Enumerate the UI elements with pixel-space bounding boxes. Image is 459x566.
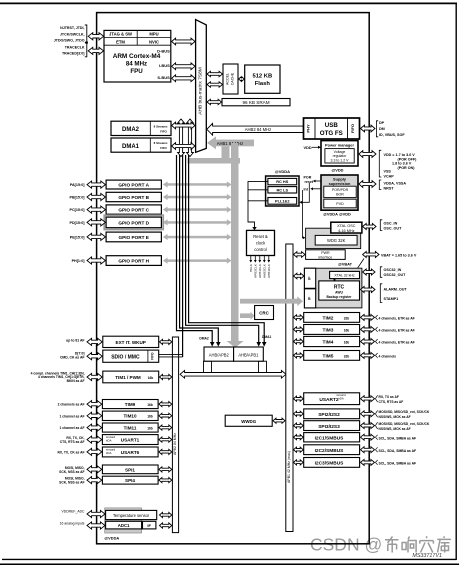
wire APB1 to SPI3/I2S3 arrow bbox=[294, 423, 304, 428]
svg-text:AHB bus-matrix 7S8M: AHB bus-matrix 7S8M bbox=[197, 67, 203, 114]
svg-text:POR: POR bbox=[304, 176, 312, 180]
svg-text:APB2CLK: APB2CLK bbox=[254, 263, 258, 278]
block AHB/APB2 bridge bbox=[204, 347, 234, 361]
svg-text:TIM3: TIM3 bbox=[323, 327, 334, 333]
wire TIM1 pins arrow bbox=[87, 373, 102, 380]
svg-text:USART2: USART2 bbox=[319, 397, 339, 403]
svg-text:APB1 42 MHz (max): APB1 42 MHz (max) bbox=[287, 451, 291, 483]
svg-text:ALARM_OUT: ALARM_OUT bbox=[384, 287, 408, 291]
wire APB2 bus bar bbox=[172, 337, 178, 533]
block watchdog gray box bbox=[306, 228, 361, 248]
block XTAL 32 kHz bbox=[330, 271, 360, 278]
wire gray branch to RTC bbox=[240, 299, 298, 304]
wire APB1 to TIM3 arrow bbox=[294, 327, 304, 332]
block XTAL OSC 4-16 MHz bbox=[331, 222, 362, 233]
wire USART6 pins arrow bbox=[87, 448, 102, 455]
svg-text:control: control bbox=[254, 247, 266, 252]
svg-text:ID, VBUS, SOF: ID, VBUS, SOF bbox=[379, 133, 405, 137]
svg-text:AHB2CLK: AHB2CLK bbox=[263, 263, 267, 278]
svg-text:Int: Int bbox=[304, 187, 309, 191]
svg-text:GPIO PORT B: GPIO PORT B bbox=[118, 195, 149, 200]
svg-text:I2C3/SMBUS: I2C3/SMBUS bbox=[315, 461, 345, 467]
block USART2 bbox=[304, 393, 360, 405]
svg-text:SCK, NSS as AF: SCK, NSS as AF bbox=[59, 470, 84, 474]
svg-text:FIFO: FIFO bbox=[160, 129, 167, 133]
wire VDDREF pins arrow bbox=[87, 510, 105, 517]
wire GPIO D port pins arrow bbox=[87, 219, 105, 226]
wire analog inputs arrow bbox=[87, 522, 105, 529]
wire SDIO AHB lines bbox=[159, 353, 183, 355]
svg-text:PE[15:0]: PE[15:0] bbox=[70, 235, 86, 239]
svg-text:@VDDA: @VDDA bbox=[104, 535, 119, 540]
block RC LS bbox=[268, 187, 297, 193]
wire TIM10 pins arrow bbox=[87, 412, 102, 419]
block SDIO / MMC bbox=[103, 350, 159, 362]
wire VBAT to RTC diagonal bbox=[358, 259, 365, 269]
wire gray AHB1 arrow to GPIO H bbox=[167, 259, 228, 262]
svg-text:irDA: irDA bbox=[106, 438, 112, 442]
svg-text:TIM5: TIM5 bbox=[323, 353, 334, 359]
block SPI4 bbox=[102, 476, 158, 484]
block TIM10 bbox=[102, 411, 158, 420]
wire S-BUS to matrix arrow bbox=[172, 75, 195, 82]
block EXT IT WKUP bbox=[103, 336, 159, 347]
wire DMA2 to matrix arrow bbox=[172, 122, 195, 129]
svg-text:RC LS: RC LS bbox=[276, 187, 288, 192]
wire GPIO C port pins arrow bbox=[87, 206, 105, 213]
wire gray AHB1 arrow to GPIO A bbox=[167, 183, 228, 186]
svg-text:HCLK: HCLK bbox=[249, 263, 253, 272]
svg-text:GPIO PORT C: GPIO PORT C bbox=[118, 208, 149, 213]
svg-text:Power manager: Power manager bbox=[325, 142, 354, 147]
svg-text:PB[15:0]: PB[15:0] bbox=[70, 196, 86, 200]
svg-text:SCL, SDA, SMBA as AF: SCL, SDA, SMBA as AF bbox=[379, 462, 417, 466]
svg-text:2 channels as AF: 2 channels as AF bbox=[58, 403, 85, 407]
svg-text:OSC32_IN: OSC32_IN bbox=[384, 268, 402, 272]
svg-text:CRC: CRC bbox=[259, 310, 269, 315]
node TIM2 pin label bbox=[375, 315, 377, 320]
svg-text:8 Streams: 8 Streams bbox=[154, 141, 168, 145]
svg-text:I-BUS: I-BUS bbox=[159, 63, 170, 68]
svg-text:ADC1: ADC1 bbox=[118, 523, 130, 528]
svg-text:PHY: PHY bbox=[306, 124, 311, 133]
svg-text:CTS, RTS as AF: CTS, RTS as AF bbox=[379, 400, 404, 404]
wire USB to pins arrow bbox=[361, 125, 376, 132]
svg-text:up to 81 AF: up to 81 AF bbox=[66, 338, 84, 342]
block RTC AWU backup register bbox=[319, 281, 360, 300]
svg-text:USART6: USART6 bbox=[121, 450, 140, 455]
wire XTAL32 to RTC arrow bbox=[334, 279, 336, 280]
svg-text:AWU: AWU bbox=[335, 290, 343, 294]
svg-text:32b: 32b bbox=[344, 316, 350, 320]
wire RC LS to WDG line bbox=[301, 190, 304, 238]
node OSC32 pin labels bbox=[380, 267, 382, 278]
svg-text:PLL1&2: PLL1&2 bbox=[275, 198, 290, 203]
svg-text:DMA2: DMA2 bbox=[199, 337, 209, 341]
node VDDA VSSA NRST pin labels bbox=[379, 180, 381, 190]
svg-text:@VDDA @VDD: @VDDA @VDD bbox=[323, 212, 351, 217]
block 96 KB SRAM bbox=[222, 99, 290, 106]
wire APB1 to SPI2/I2S2 arrow bbox=[294, 411, 304, 416]
wire TRACE arrow bbox=[88, 47, 103, 54]
wire TIM3 to pins arrow bbox=[361, 326, 375, 332]
wire matrix to ART arrow upper bbox=[207, 71, 223, 76]
svg-text:FIFO: FIFO bbox=[350, 124, 355, 133]
block PWR interface bbox=[306, 250, 346, 260]
svg-text:AHB/APB2: AHB/APB2 bbox=[209, 352, 230, 357]
wire APB1 to PWR arrow bbox=[294, 252, 306, 258]
wire gray branch to CRC bbox=[240, 313, 251, 318]
svg-text:NRST: NRST bbox=[384, 186, 395, 190]
svg-text:PD[15:0]: PD[15:0] bbox=[70, 221, 86, 225]
wire JTAG arrow bbox=[88, 33, 103, 40]
block TIM5 bbox=[304, 351, 360, 361]
wire APB1 to TIM4 arrow bbox=[294, 339, 304, 344]
block WWDG bbox=[225, 415, 272, 426]
wire OSC pins arrow bbox=[363, 224, 376, 230]
svg-text:I2C2/SMBUS: I2C2/SMBUS bbox=[315, 448, 345, 454]
wire AHB to APB1 bridge line 2 bbox=[189, 155, 265, 343]
wire gray bus vertical bar bbox=[231, 143, 239, 341]
svg-text:4-16 MHz: 4-16 MHz bbox=[338, 229, 355, 233]
node TIM3 pin label bbox=[375, 327, 377, 332]
block ADC IF bbox=[143, 521, 156, 529]
node I2C2/SMBUS pin labels bbox=[375, 447, 377, 452]
chip outline U1 STM32F401 bbox=[97, 13, 370, 544]
svg-text:clock: clock bbox=[256, 241, 266, 246]
svg-text:BOR: BOR bbox=[336, 192, 344, 196]
block 512 KB Flash bbox=[245, 65, 280, 93]
block RC oscillators container bbox=[266, 176, 299, 206]
wire APB1 to I2C2/SMBUS arrow bbox=[294, 447, 304, 452]
block supply supervision bbox=[321, 175, 358, 210]
svg-text:NSS/WS, MCK as AF: NSS/WS, MCK as AF bbox=[379, 427, 411, 431]
svg-text:S-BUS: S-BUS bbox=[157, 75, 170, 80]
svg-text:MS33717V1: MS33717V1 bbox=[412, 553, 442, 559]
svg-text:PA[15:0]: PA[15:0] bbox=[70, 183, 85, 187]
svg-text:DP: DP bbox=[379, 121, 385, 125]
svg-text:GPIO PORT D: GPIO PORT D bbox=[118, 220, 149, 225]
wire SPI4 pins arrow bbox=[87, 477, 102, 484]
svg-text:32b: 32b bbox=[344, 354, 350, 358]
svg-text:16b: 16b bbox=[147, 427, 153, 431]
wire APB1 to TIM2 arrow bbox=[294, 315, 304, 320]
svg-text:USB: USB bbox=[325, 122, 339, 129]
block TIM9 bbox=[102, 400, 158, 409]
svg-text:TRACECLK: TRACECLK bbox=[65, 46, 85, 50]
wire I2C3/SMBUS to pins arrow bbox=[361, 459, 375, 465]
wire gray AHB1 arrow to GPIO D bbox=[167, 221, 228, 224]
svg-text:irDA: irDA bbox=[338, 396, 344, 400]
wire SPI1 to APB2 arrow bbox=[159, 467, 172, 472]
block TIM11 bbox=[102, 423, 158, 432]
block AHB bus-matrix bbox=[196, 20, 207, 153]
svg-text:NSS/WS, MCK as AF: NSS/WS, MCK as AF bbox=[379, 415, 411, 419]
wire OSC32 pins arrow bbox=[363, 269, 375, 275]
block power manager bbox=[321, 141, 358, 166]
svg-text:16b: 16b bbox=[344, 328, 350, 332]
svg-text:3.3 to 1.2 V: 3.3 to 1.2 V bbox=[331, 158, 350, 162]
wire TIM9 pins arrow bbox=[87, 401, 102, 408]
svg-text:VBAT = 1.65 to 3.6 V: VBAT = 1.65 to 3.6 V bbox=[381, 253, 417, 257]
wire APB1 to RTC IF arrow bbox=[294, 273, 304, 279]
block RTC backup domain gray box bbox=[304, 268, 362, 308]
wire gray AHB1 arrow to GPIO C bbox=[167, 208, 228, 211]
wire ALARM arrow bbox=[361, 287, 376, 293]
svg-text:RC HS: RC HS bbox=[276, 179, 289, 184]
block TIM3 bbox=[304, 325, 360, 335]
wire RC to RCC lines bbox=[248, 182, 268, 228]
svg-text:4 channels, ETR as AF: 4 channels, ETR as AF bbox=[379, 329, 415, 333]
svg-text:TIM9: TIM9 bbox=[125, 402, 136, 407]
node TIM4 pin label bbox=[375, 339, 377, 344]
svg-text:WDG 32K: WDG 32K bbox=[327, 238, 346, 243]
svg-text:XTAL OSC: XTAL OSC bbox=[337, 224, 356, 228]
block Reset and clock control RCC bbox=[247, 230, 275, 255]
wire I-BUS to matrix arrow bbox=[172, 63, 195, 70]
wire supply to PLL line bbox=[302, 183, 310, 202]
wire ADC to APB2 arrow bbox=[160, 523, 172, 528]
wire TIM11 pins arrow bbox=[87, 424, 102, 431]
svg-text:16b: 16b bbox=[148, 376, 154, 380]
svg-text:WWDG: WWDG bbox=[241, 419, 256, 424]
wire TIM2 to pins arrow bbox=[361, 314, 375, 320]
svg-text:TIM2: TIM2 bbox=[323, 315, 334, 321]
wire right page border bbox=[455, 3, 457, 560]
block TIM1 / PWM bbox=[103, 371, 159, 383]
wire APB1 to I2C1/SMBUS arrow bbox=[294, 435, 304, 440]
wire DMA vertical arrow 1 bbox=[178, 119, 185, 157]
svg-text:JTDO/SWO, JTDO: JTDO/SWO, JTDO bbox=[54, 38, 85, 42]
wire USART1 to APB2 arrow bbox=[159, 437, 172, 442]
wire TIM4 to pins arrow bbox=[361, 339, 375, 345]
svg-text:irDA: irDA bbox=[106, 451, 112, 455]
wire power pins arrow bbox=[359, 151, 376, 158]
block temperature sensor bbox=[106, 510, 157, 519]
svg-text:16 analog inputs: 16 analog inputs bbox=[60, 522, 85, 526]
block ADC1 bbox=[106, 521, 142, 529]
svg-text:Temperature sensor: Temperature sensor bbox=[113, 513, 150, 518]
block ARM Cortex-M4 core bbox=[104, 30, 171, 82]
wire SPI2/I2S2 to pins arrow bbox=[361, 411, 375, 417]
wire TIM9 to APB2 arrow bbox=[159, 402, 172, 407]
svg-text:PH[1:0]: PH[1:0] bbox=[72, 259, 86, 263]
svg-text:Backup register: Backup register bbox=[327, 295, 353, 299]
node USB pin labels DP DM ID VBUS SOF bbox=[376, 121, 378, 137]
svg-text:SDIO / MMC: SDIO / MMC bbox=[111, 354, 140, 360]
wire gray bus horizontal band bbox=[188, 158, 241, 164]
wire VDD arrow to power manager bbox=[312, 146, 319, 148]
block AHB/APB1 bridge bbox=[234, 347, 264, 361]
svg-text:ARM Cortex-M4: ARM Cortex-M4 bbox=[113, 53, 161, 60]
svg-text:CACHE: CACHE bbox=[230, 72, 234, 85]
svg-text:TIM4: TIM4 bbox=[323, 340, 334, 346]
block RC HS bbox=[268, 178, 297, 184]
wire matrix to ART arrow lower bbox=[207, 82, 223, 87]
node JTAG pin labels bbox=[54, 26, 85, 55]
block I2C1/SMBUS bbox=[304, 433, 360, 442]
svg-text:I2C1/SMBUS: I2C1/SMBUS bbox=[315, 435, 345, 441]
wire WWDG to APB1 arrow bbox=[273, 418, 285, 423]
svg-text:ETM: ETM bbox=[116, 39, 125, 44]
svg-text:SPI2/I2S2: SPI2/I2S2 bbox=[318, 412, 340, 418]
svg-text:PVD: PVD bbox=[336, 202, 344, 206]
wire ART to flash arrow bbox=[239, 77, 245, 82]
wire bottom page rule bbox=[0, 563, 459, 565]
svg-text:4 channels, ETR as AF: 4 channels, ETR as AF bbox=[379, 341, 415, 345]
svg-text:TRACED[3:0]: TRACED[3:0] bbox=[62, 51, 85, 55]
svg-text:GPIO PORT A: GPIO PORT A bbox=[118, 183, 149, 188]
svg-text:JTAG & SW: JTAG & SW bbox=[109, 32, 132, 37]
wire TIM11 to APB2 arrow bbox=[159, 425, 172, 430]
svg-text:POR/PDR: POR/PDR bbox=[332, 188, 349, 192]
node OSC_IN OSC_OUT pin labels bbox=[380, 220, 382, 231]
wire DMA vertical arrow 2 bbox=[187, 119, 194, 157]
svg-text:FPU: FPU bbox=[130, 68, 143, 75]
wire APB1 to I2C3/SMBUS arrow bbox=[294, 460, 304, 465]
block TIM4 bbox=[304, 336, 360, 346]
wire VBAT arrow bbox=[363, 252, 379, 258]
svg-text:OSC_IN: OSC_IN bbox=[384, 222, 398, 226]
svg-text:SPI4: SPI4 bbox=[125, 478, 135, 483]
wire AHB2 84 MHz arrow bbox=[207, 123, 303, 135]
svg-text:DMA1: DMA1 bbox=[122, 144, 140, 150]
svg-text:JTCK/SWCLK,: JTCK/SWCLK, bbox=[60, 32, 85, 36]
block USART1 bbox=[102, 435, 158, 445]
svg-text:MOSI/SD, MISO/SD_ext, SCK/CK: MOSI/SD, MISO/SD_ext, SCK/CK bbox=[379, 410, 430, 414]
svg-text:USART1: USART1 bbox=[121, 438, 140, 443]
node I2C3/SMBUS pin labels bbox=[375, 460, 377, 465]
svg-text:4 channels: 4 channels bbox=[379, 355, 397, 359]
node TIM5 pin label bbox=[375, 353, 377, 358]
svg-text:4 channels, ETR as AF: 4 channels, ETR as AF bbox=[379, 317, 415, 321]
svg-text:SCK, NSS as AF: SCK, NSS as AF bbox=[59, 481, 84, 485]
block I2C2/SMBUS bbox=[304, 445, 360, 455]
wire APB1 bus bar bbox=[286, 244, 293, 532]
node SPI2/I2S2 pin labels bbox=[375, 410, 377, 417]
svg-text:GPIO PORT H: GPIO PORT H bbox=[118, 258, 149, 263]
svg-text:SPI1: SPI1 bbox=[125, 467, 135, 472]
block GPIO PORT B bbox=[106, 192, 161, 201]
svg-text:DM: DM bbox=[379, 127, 385, 131]
svg-text:1 channel as AF: 1 channel as AF bbox=[60, 426, 85, 430]
svg-text:SPI3/I2S3: SPI3/I2S3 bbox=[318, 424, 340, 430]
wire APB1 to TIM5 arrow bbox=[294, 353, 304, 358]
svg-text:OSC32_OUT: OSC32_OUT bbox=[384, 273, 407, 277]
block GPIO PORT D bbox=[104, 215, 163, 229]
svg-text:OSC_OUT: OSC_OUT bbox=[384, 227, 403, 231]
node JTAG bracket bbox=[85, 25, 87, 57]
wire NVIC to matrix arrow bbox=[172, 38, 195, 45]
svg-text:TIM1 / PWM: TIM1 / PWM bbox=[115, 375, 141, 380]
svg-text:@VDDA: @VDDA bbox=[275, 169, 290, 174]
svg-text:FIFO: FIFO bbox=[151, 352, 155, 360]
svg-text:SCL, SDA, SMBA as AF: SCL, SDA, SMBA as AF bbox=[379, 436, 417, 440]
wire I2C2/SMBUS to pins arrow bbox=[361, 447, 375, 453]
wire I2C1/SMBUS to pins arrow bbox=[361, 434, 375, 440]
svg-text:MPU: MPU bbox=[149, 32, 158, 37]
node watermark glyph xue bbox=[420, 536, 434, 552]
wire SPI4 to APB2 arrow bbox=[159, 478, 172, 483]
svg-text:AHB1 84 MHz: AHB1 84 MHz bbox=[217, 141, 244, 146]
wire GPIO E port pins arrow bbox=[87, 233, 105, 240]
block SPI2/I2S2 bbox=[304, 409, 360, 419]
block ART accelerator cache bbox=[223, 64, 238, 94]
wire bottom frame line bbox=[2, 558, 456, 560]
svg-text:FIFO: FIFO bbox=[160, 146, 167, 150]
wire gray AHB1 arrow to GPIO E bbox=[167, 236, 228, 239]
block USB OTG FS bbox=[304, 118, 360, 139]
wire gray AHB1 arrow to GPIO B bbox=[167, 196, 228, 199]
svg-text:AHB1CLK: AHB1CLK bbox=[267, 263, 271, 278]
svg-text:VCAP: VCAP bbox=[384, 175, 395, 179]
svg-text:VSS: VSS bbox=[384, 170, 392, 174]
node ALARM_OUT STAMP1 pin labels bbox=[380, 284, 382, 303]
wire GPIO B port pins arrow bbox=[87, 193, 105, 200]
wire SPI1 pins arrow bbox=[87, 466, 102, 473]
svg-text:BKIN as AF: BKIN as AF bbox=[67, 379, 85, 383]
wire GPIO H port pins arrow bbox=[87, 257, 105, 264]
svg-text:CMD, CK as AF: CMD, CK as AF bbox=[60, 356, 85, 360]
wire AHB1 84 MHz gray arrow bbox=[207, 136, 216, 149]
node watermark glyph bu bbox=[385, 537, 399, 553]
wire POR reset arrow bbox=[315, 180, 321, 182]
block RTC interface IF lower bbox=[304, 289, 315, 308]
wire VDDA NRST arrow bbox=[359, 181, 376, 188]
svg-text:96 KB SRAM: 96 KB SRAM bbox=[242, 100, 269, 105]
block DMA1 bbox=[111, 138, 171, 152]
block GPIO PORT C bbox=[106, 205, 161, 214]
wire temp sensor to APB2 arrow bbox=[160, 512, 172, 517]
svg-text:Reset &: Reset & bbox=[253, 234, 268, 239]
node watermark glyph xi bbox=[437, 536, 451, 552]
svg-text:GPIO PORT E: GPIO PORT E bbox=[118, 235, 148, 240]
svg-text:512 KB: 512 KB bbox=[252, 74, 272, 80]
svg-text:NVIC: NVIC bbox=[149, 39, 159, 44]
svg-text:ACCEL: ACCEL bbox=[225, 73, 229, 85]
wire RCC clock outputs bbox=[249, 256, 271, 279]
block WDG 32K bbox=[315, 235, 357, 245]
wire AHB to SDIO line bbox=[182, 155, 184, 357]
wire top page rule bbox=[0, 2, 457, 4]
svg-text:supervision: supervision bbox=[329, 181, 351, 186]
svg-text:16b: 16b bbox=[147, 403, 153, 407]
wire GPIO A port pins arrow bbox=[87, 181, 105, 188]
wire USART6 to APB2 arrow bbox=[159, 449, 172, 454]
svg-text:XTAL 32 kHz: XTAL 32 kHz bbox=[334, 274, 354, 278]
svg-text:VDD: VDD bbox=[304, 145, 312, 150]
block SPI1 bbox=[102, 465, 158, 474]
node watermark glyph xiang bbox=[402, 537, 416, 553]
wire AHB to APB2 bridge line 1 bbox=[177, 155, 213, 343]
svg-text:TIM11: TIM11 bbox=[124, 426, 137, 431]
wire gray bus vertical stub bbox=[222, 146, 230, 163]
wire TIM10 to APB2 arrow bbox=[159, 413, 172, 418]
svg-text:@VDD: @VDD bbox=[331, 168, 343, 173]
svg-text:NJTRST, JTDI,: NJTRST, JTDI, bbox=[60, 26, 84, 30]
wire Int arrow bbox=[313, 188, 322, 190]
svg-text:DMA1: DMA1 bbox=[262, 335, 272, 339]
wire bridge lower stub right bbox=[259, 361, 267, 372]
wire gray branch over APB1 bar bbox=[285, 299, 298, 304]
wire AHB to APB2 bridge line 2 bbox=[180, 155, 219, 343]
wire matrix to SRAM arrow bbox=[207, 99, 222, 104]
svg-text:EXT IT. WKUP: EXT IT. WKUP bbox=[116, 340, 146, 345]
block GPIO PORT H bbox=[106, 256, 161, 266]
node VDD VSS VCAP pin labels bbox=[379, 150, 381, 177]
svg-text:16b: 16b bbox=[147, 415, 153, 419]
block GPIO PORT A bbox=[106, 180, 161, 189]
